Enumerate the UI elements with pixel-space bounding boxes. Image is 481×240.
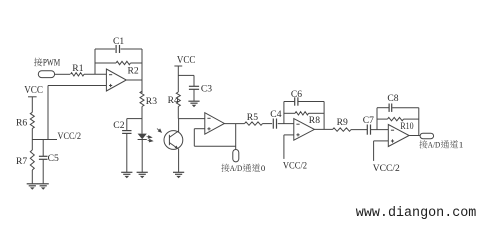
light arrow into Q1 (157, 129, 161, 133)
A/D channel 0 connector (233, 150, 239, 162)
feedback right vertical (stage 4) (418, 108, 420, 136)
U3 + input to VCC/2 (284, 134, 294, 136)
接A/D通道1 label (419, 140, 427, 148)
phototransistor Q1 circle (164, 131, 183, 150)
svg-text:VCC/2: VCC/2 (373, 163, 400, 174)
ground under LED (137, 171, 148, 173)
svg-text:VCC/2: VCC/2 (283, 161, 307, 172)
ground under C2 (121, 171, 132, 173)
wire Q1 emitter to ground (178, 149, 180, 173)
svg-text:VCC/2: VCC/2 (58, 131, 82, 142)
svg-text:1: 1 (459, 140, 463, 150)
svg-text:R5: R5 (247, 112, 258, 123)
svg-text:www.diangon.com: www.diangon.com (356, 206, 477, 221)
Q1 emitter line with arrow (169, 143, 177, 149)
PWM input connector (38, 71, 54, 78)
wire U1 + input to VCC/2 (48, 85, 106, 87)
svg-text:R7: R7 (16, 156, 27, 167)
ground under C3 (188, 100, 199, 102)
svg-text:R4: R4 (168, 95, 179, 106)
wire R4 to node (177, 107, 179, 119)
LED of optocoupler (anode from R3) (138, 134, 147, 140)
ground under C5 (38, 183, 49, 185)
ground under R7 (27, 183, 38, 185)
wire R7 to ground (31, 170, 33, 184)
feedback right vertical (stage 3) (323, 102, 325, 130)
wire R9 to C7 (351, 129, 367, 131)
wire Q1 collector up to R4 node (178, 119, 180, 133)
op-amp U2 (follower) (205, 113, 225, 135)
svg-text:R1: R1 (72, 63, 83, 74)
svg-text:VCC: VCC (177, 55, 196, 66)
node: feedback left vertical (94, 49, 96, 74)
U3 output wire (314, 128, 332, 130)
svg-text:C1: C1 (113, 36, 124, 47)
op-amp U4 (388, 125, 409, 147)
ground under Q1 emitter (173, 171, 184, 173)
svg-text:R9: R9 (337, 117, 348, 128)
Q1 collector line (169, 131, 178, 138)
Q1 base bar (168, 135, 170, 145)
op-amp U1 (106, 69, 126, 91)
node wire to C2 (127, 118, 142, 120)
svg-text:C8: C8 (387, 93, 398, 104)
branch wire to C3 (178, 74, 194, 76)
接A/D通道0 label (221, 164, 229, 172)
svg-text:C5: C5 (48, 153, 59, 164)
LED light arrows (147, 136, 152, 139)
feedback left vertical (stage 4) (376, 108, 378, 130)
wire R3 to LED node (141, 107, 143, 134)
svg-text:R8: R8 (309, 115, 320, 126)
svg-text:C3: C3 (201, 84, 212, 95)
wire C7 to U4 - input (371, 129, 389, 131)
op-amp U3 (294, 119, 315, 141)
node wire to op-amp U2 (178, 118, 205, 120)
svg-text:R2: R2 (128, 65, 139, 76)
wire R1 to op-amp U1 inverting input (84, 73, 106, 75)
svg-text:R3: R3 (146, 96, 157, 107)
U4 output wire (409, 135, 420, 137)
feedback right vertical / output node (141, 49, 143, 93)
svg-text:C6: C6 (291, 89, 302, 100)
svg-text:A/D: A/D (230, 163, 242, 173)
svg-text:PWM: PWM (43, 59, 61, 69)
svg-text:C2: C2 (113, 120, 124, 131)
VCC/2 rail node (32, 139, 57, 141)
wire R5 to C4 (263, 123, 273, 125)
U2 feedback loop to + input (194, 128, 205, 130)
svg-text:0: 0 (261, 163, 266, 173)
wire C4 to U3 - input (278, 123, 294, 125)
A/D channel 1 connector (420, 133, 434, 139)
U2 output wire (224, 123, 244, 125)
svg-text:A/D: A/D (428, 140, 440, 150)
svg-text:VCC: VCC (24, 85, 43, 96)
svg-text:C7: C7 (363, 115, 374, 126)
U4 + input to VCC/2 (374, 140, 389, 142)
wire R6 to VCC/2 node (31, 129, 33, 151)
wire connector to R1 (55, 73, 70, 75)
wire LED cathode to ground (141, 140, 143, 173)
svg-text:R10: R10 (400, 121, 413, 132)
feedback left vertical (stage 3) (283, 102, 285, 124)
wire U1 output (126, 79, 142, 81)
接PWM label (34, 58, 43, 67)
svg-text:R6: R6 (16, 118, 27, 129)
